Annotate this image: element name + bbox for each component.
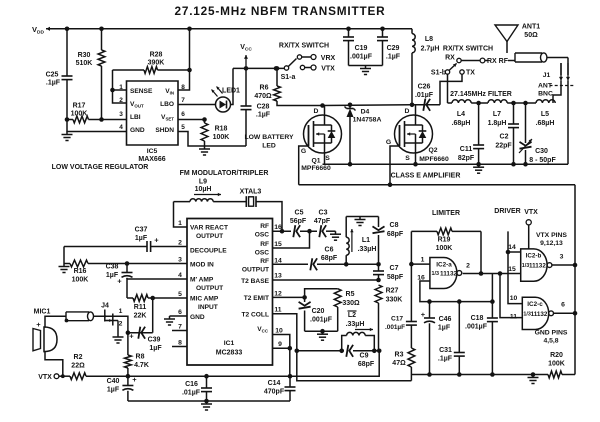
- junction pin14-L1: [344, 262, 349, 267]
- junction pin11 node: [295, 349, 300, 354]
- svg-text:50Ω: 50Ω: [524, 32, 538, 39]
- junction pin13-C7: [376, 278, 381, 283]
- svg-text:LBI: LBI: [130, 114, 141, 121]
- wire IC2b output: [552, 264, 575, 266]
- svg-text:Q2: Q2: [428, 147, 437, 154]
- node VTX driver terminal: [524, 209, 538, 249]
- capacitor C20: [299, 297, 333, 331]
- junction R11-C39: [150, 296, 155, 301]
- wire C25 to pin4 gnd: [67, 120, 127, 132]
- svg-text:TX: TX: [466, 70, 475, 77]
- svg-text:R16: R16: [74, 268, 87, 275]
- wire pin15 jog: [273, 231, 310, 248]
- resistor R18: [201, 120, 229, 147]
- IC5 pin numbers left: [119, 84, 123, 131]
- svg-text:.1µF: .1µF: [46, 80, 61, 87]
- svg-text:S1-a: S1-a: [281, 74, 296, 81]
- svg-text:G: G: [386, 139, 391, 146]
- wire pin8 stub: [172, 346, 187, 348]
- wire XTAL3 to pin16: [256, 202, 282, 232]
- wire J1 right down: [567, 81, 569, 165]
- label fm modulator: [180, 170, 269, 177]
- wire C39 node down: [127, 333, 129, 355]
- nand gate IC2-a: [417, 257, 461, 289]
- wire LED to Vcc wire: [231, 68, 234, 104]
- junction VDD-C25: [65, 27, 70, 32]
- svg-text:1µF: 1µF: [438, 325, 451, 332]
- wire Q2 gate down: [390, 146, 400, 185]
- svg-text:.1µF: .1µF: [386, 54, 401, 61]
- svg-text:C14: C14: [268, 380, 281, 387]
- svg-text:510K: 510K: [76, 60, 93, 67]
- svg-text:2: 2: [119, 321, 123, 328]
- junction L2 left: [339, 349, 344, 354]
- svg-text:RX RF: RX RF: [487, 58, 509, 65]
- svg-text:3: 3: [560, 254, 564, 261]
- svg-text:M′ AMP: M′ AMP: [190, 277, 214, 284]
- capacitor C6: [310, 247, 338, 271]
- svg-text:22K: 22K: [134, 313, 147, 320]
- wire pin7 stub: [172, 330, 187, 332]
- wire VTX rail to R27 node: [290, 351, 379, 376]
- junction rail-C2: [511, 162, 516, 167]
- svg-text:IC5: IC5: [147, 148, 158, 155]
- svg-text:6: 6: [181, 111, 185, 118]
- svg-text:RF: RF: [260, 241, 269, 248]
- svg-text:C7: C7: [390, 265, 399, 272]
- mic cable: [65, 312, 94, 323]
- svg-text:BNC: BNC: [538, 91, 553, 98]
- svg-text:100K: 100K: [436, 245, 453, 252]
- wire C28 bottom to ground node: [205, 145, 247, 147]
- svg-text:4: 4: [178, 272, 182, 279]
- svg-text:11: 11: [274, 307, 281, 314]
- svg-text:R2: R2: [74, 354, 83, 361]
- junction filter-C11: [476, 101, 481, 106]
- svg-text:R27: R27: [386, 288, 399, 295]
- svg-text:L5: L5: [541, 111, 549, 118]
- ground on L1 top: [355, 217, 366, 226]
- wire pin14 riser: [508, 231, 522, 303]
- svg-text:15: 15: [274, 241, 282, 248]
- junction C31 top: [457, 299, 462, 304]
- svg-text:1: 1: [119, 308, 123, 315]
- junction rail-C11: [476, 162, 481, 167]
- svg-text:8 - 50pF: 8 - 50pF: [529, 157, 556, 164]
- svg-text:C5: C5: [295, 210, 304, 217]
- svg-text:INPUT: INPUT: [198, 304, 218, 311]
- capacitor C3: [314, 210, 331, 238]
- capacitor C5: [290, 210, 307, 238]
- svg-text:100K: 100K: [548, 361, 565, 368]
- svg-text:390K: 390K: [148, 60, 165, 67]
- junction C5-C3: [307, 229, 312, 234]
- inductor L4: [452, 100, 472, 127]
- transistor Q1: [301, 106, 342, 173]
- junction C39 left node: [126, 330, 131, 335]
- junction Q2 gate: [388, 182, 393, 187]
- wire pin13: [273, 279, 379, 281]
- junction pin12-C20: [302, 295, 307, 300]
- svg-text:1: 1: [119, 84, 123, 91]
- junction VSET-R18: [202, 117, 207, 122]
- svg-text:DRIVER: DRIVER: [494, 208, 520, 215]
- switch S1-a: [274, 55, 336, 82]
- svg-text:MC2833: MC2833: [216, 350, 243, 357]
- svg-text:1/3: 1/3: [432, 271, 440, 277]
- junction C46 top: [427, 299, 432, 304]
- svg-text:11132: 11132: [529, 263, 546, 270]
- node VDD label: [32, 25, 44, 36]
- junction out-R19: [479, 271, 484, 276]
- svg-text:C20: C20: [312, 308, 325, 315]
- svg-text:1µF: 1µF: [149, 345, 162, 352]
- svg-text:G: G: [301, 148, 306, 155]
- wire J4 pin1 to C39 node: [106, 316, 128, 332]
- svg-text:LED1: LED1: [222, 88, 240, 95]
- svg-text:.001µF: .001µF: [310, 317, 333, 324]
- svg-text:R28: R28: [150, 52, 163, 59]
- ground under C19/C29: [360, 66, 371, 75]
- label limiter: [432, 210, 460, 217]
- node VTX terminal: [38, 374, 59, 381]
- coax to antenna: [485, 53, 547, 62]
- svg-text:C28: C28: [257, 104, 270, 111]
- svg-text:C17: C17: [391, 316, 403, 323]
- svg-text:MIC AMP: MIC AMP: [190, 296, 219, 303]
- svg-text:IC1: IC1: [224, 340, 235, 347]
- wire driver output riser: [574, 185, 576, 375]
- svg-text:J1: J1: [543, 72, 551, 79]
- svg-text:L2: L2: [348, 312, 356, 319]
- zener D4: [345, 105, 382, 164]
- svg-text:100K: 100K: [71, 111, 88, 118]
- svg-text:68pF: 68pF: [387, 231, 404, 238]
- wire GND pin6: [170, 315, 188, 317]
- wire VDD to VIN pin8: [178, 29, 190, 90]
- svg-text:2.7µH: 2.7µH: [421, 46, 440, 53]
- svg-text:.33µH: .33µH: [358, 246, 377, 253]
- resistor R16: [64, 260, 187, 283]
- junction rail-Q2S: [413, 162, 418, 167]
- label RX/TX switch b: [443, 46, 493, 53]
- junction drain-D4: [348, 103, 353, 108]
- svg-text:1: 1: [421, 257, 425, 264]
- svg-text:9: 9: [278, 341, 282, 348]
- svg-text:11132: 11132: [440, 271, 458, 278]
- svg-text:R30: R30: [78, 52, 91, 59]
- junction filter-C2: [511, 101, 516, 106]
- svg-text:2: 2: [119, 97, 123, 104]
- junction rail-C46: [427, 372, 432, 377]
- svg-text:RX/TX SWITCH: RX/TX SWITCH: [443, 46, 493, 53]
- svg-text:RX/TX SWITCH: RX/TX SWITCH: [279, 43, 329, 50]
- svg-text:R8: R8: [136, 354, 145, 361]
- wire source rail: [323, 163, 569, 165]
- capacitor C39: [128, 327, 162, 352]
- svg-text:L8: L8: [425, 36, 433, 43]
- svg-text:GND PINS: GND PINS: [535, 330, 568, 337]
- label VTX pins: [536, 232, 567, 247]
- svg-text:C40: C40: [107, 378, 120, 385]
- svg-text:SENSE: SENSE: [130, 88, 153, 95]
- wire bottom right rail: [411, 374, 575, 376]
- svg-text:1N4758A: 1N4758A: [353, 117, 382, 124]
- svg-text:C9: C9: [360, 353, 369, 360]
- svg-text:IC2-b: IC2-b: [526, 253, 542, 260]
- wire Q1 source: [324, 153, 326, 164]
- svg-text:.1µF: .1µF: [438, 356, 453, 363]
- resistor R2: [70, 354, 86, 380]
- svg-text:L9: L9: [199, 179, 207, 186]
- variable capacitor C30: [519, 103, 556, 164]
- svg-text:IC2-c: IC2-c: [527, 301, 543, 308]
- wire pin14: [273, 263, 379, 265]
- svg-text:.01µF: .01µF: [182, 390, 201, 397]
- svg-text:LOW VOLTAGE REGULATOR: LOW VOLTAGE REGULATOR: [52, 164, 149, 171]
- wire R11 node down: [152, 298, 154, 333]
- op-amp U-IC1 MC2833 box: [187, 219, 273, 366]
- svg-text:VTX: VTX: [38, 374, 52, 381]
- svg-text:3: 3: [178, 257, 182, 264]
- svg-text:R3: R3: [395, 352, 404, 359]
- wire output down to C18: [491, 274, 493, 319]
- inductor L1: [346, 217, 378, 265]
- svg-text:+: +: [132, 375, 137, 384]
- wire filter top rail: [448, 102, 537, 104]
- wire S1b pole to filter: [447, 74, 449, 103]
- svg-text:C31: C31: [439, 347, 452, 354]
- svg-text:58pF: 58pF: [387, 274, 404, 281]
- ground bottom rail: [201, 401, 212, 410]
- junction IC2c out: [573, 311, 578, 316]
- label L2: [346, 311, 373, 331]
- ground bottom right: [528, 375, 539, 384]
- junction VTX-mic: [61, 374, 65, 378]
- label low battery led: [244, 134, 294, 150]
- svg-text:R5: R5: [346, 291, 355, 298]
- capacitor C11: [458, 103, 484, 164]
- svg-text:T2 COLL: T2 COLL: [242, 312, 269, 319]
- svg-text:4.7K: 4.7K: [134, 362, 149, 369]
- capacitor C38: [106, 264, 133, 286]
- resistor R3: [392, 348, 415, 381]
- svg-text:SHDN: SHDN: [155, 127, 174, 134]
- svg-text:330Ω: 330Ω: [342, 300, 360, 307]
- switch S1-b: [431, 55, 475, 77]
- capacitor C25: [46, 29, 73, 120]
- wire J4 pin2 to ground: [117, 321, 119, 335]
- nand gate IC2-b: [508, 244, 563, 281]
- crystal XTAL3: [240, 189, 262, 208]
- svg-text:5: 5: [178, 291, 182, 298]
- svg-text:RF: RF: [260, 258, 269, 265]
- svg-text:7: 7: [181, 97, 185, 104]
- resistor R30: [76, 29, 105, 120]
- nand gate IC2-c: [510, 295, 565, 330]
- svg-text:C8: C8: [390, 222, 399, 229]
- svg-text:470Ω: 470Ω: [254, 93, 272, 100]
- svg-text:5: 5: [181, 124, 185, 131]
- ground under C20: [317, 331, 328, 340]
- svg-text:ANT1: ANT1: [522, 24, 540, 31]
- wire C26 to TX throw: [440, 74, 462, 105]
- svg-text:C26: C26: [418, 84, 431, 91]
- ground filter: [473, 164, 484, 173]
- wire R28 to pins 1-2: [113, 70, 127, 103]
- wire C20/R5 bottom: [305, 330, 338, 332]
- resistor R20: [548, 352, 565, 378]
- inductor L9: [174, 179, 247, 202]
- svg-text:14: 14: [274, 257, 282, 264]
- svg-text:330K: 330K: [386, 297, 403, 304]
- junction VTX-R8: [126, 374, 131, 379]
- svg-text:OUTPUT: OUTPUT: [242, 267, 269, 274]
- svg-text:J4: J4: [101, 303, 109, 310]
- ground at R16: [59, 264, 70, 273]
- capacitor C2: [495, 103, 519, 164]
- svg-text:ANT: ANT: [538, 83, 553, 90]
- resistor R11: [127, 295, 187, 320]
- wire Q1 gate down: [299, 146, 309, 185]
- wire pin4: [127, 279, 187, 298]
- svg-text:.68µH: .68µH: [452, 120, 471, 127]
- svg-text:C46: C46: [439, 316, 452, 323]
- svg-text:3: 3: [119, 111, 123, 118]
- junction pin9-pin10: [288, 346, 293, 351]
- capacitor C31: [438, 302, 465, 375]
- wire VDD rail: [46, 27, 412, 31]
- svg-text:+: +: [154, 236, 159, 245]
- svg-text:MIC1: MIC1: [34, 309, 51, 316]
- IC5 pin numbers right: [181, 84, 185, 131]
- label gnd pins: [535, 330, 568, 345]
- wire L9 to pin1: [174, 202, 188, 227]
- svg-text:+: +: [421, 310, 426, 319]
- junction VTX-C16: [204, 374, 209, 379]
- svg-text:OSC: OSC: [255, 250, 270, 257]
- microphone MIC1: [33, 309, 66, 376]
- wire SHDN pin5 to ground: [178, 132, 205, 147]
- svg-text:OUTPUT: OUTPUT: [196, 285, 223, 292]
- svg-text:C37: C37: [135, 227, 148, 234]
- svg-text:C3: C3: [319, 210, 328, 217]
- svg-text:CLASS E AMPLIFIER: CLASS E AMPLIFIER: [391, 173, 461, 180]
- label class e amplifier: [391, 173, 461, 180]
- svg-text:82pF: 82pF: [458, 155, 475, 162]
- svg-text:22Ω: 22Ω: [71, 363, 85, 370]
- svg-text:R20: R20: [550, 352, 563, 359]
- svg-text:.68µH: .68µH: [536, 120, 555, 127]
- svg-text:D: D: [405, 108, 410, 115]
- junction drain-Q2: [410, 103, 415, 108]
- resistor R17: [67, 103, 127, 123]
- svg-text:100K: 100K: [213, 134, 230, 141]
- junction R30-R17: [99, 117, 104, 122]
- svg-text:MOD IN: MOD IN: [190, 262, 214, 269]
- svg-text:OSC: OSC: [255, 232, 270, 239]
- svg-text:LIMITER: LIMITER: [432, 210, 460, 217]
- svg-text:MPF6660: MPF6660: [301, 165, 331, 172]
- svg-text:T2 EMIT: T2 EMIT: [244, 295, 269, 302]
- svg-text:C30: C30: [535, 148, 548, 155]
- svg-text:VRX: VRX: [321, 55, 336, 62]
- svg-text:100K: 100K: [72, 277, 89, 284]
- junction C25-R17: [65, 117, 70, 122]
- ground at pin6: [164, 316, 175, 325]
- svg-text:LBO: LBO: [160, 101, 174, 108]
- junction rail-C30: [523, 162, 528, 167]
- svg-text:R19: R19: [438, 237, 451, 244]
- wire LBO pin7 to LED: [178, 104, 216, 106]
- ground under R18: [199, 146, 210, 155]
- junction VTX-C14: [288, 374, 293, 379]
- capacitor C14: [264, 376, 296, 401]
- svg-text:.001µF: .001µF: [465, 324, 488, 331]
- IC1 pin numbers left: [178, 220, 182, 347]
- connector J1: [538, 58, 575, 98]
- wire bottom rail: [128, 400, 290, 402]
- junction rail-C31: [457, 372, 462, 377]
- svg-text:.1µF: .1µF: [256, 112, 271, 119]
- ground at J4: [113, 334, 124, 343]
- wire J1 left to filter out: [553, 81, 561, 103]
- wire pin16: [273, 230, 336, 232]
- label low voltage regulator: [52, 164, 149, 171]
- wire C19-C29 bottom: [349, 65, 383, 67]
- capacitor C26: [412, 84, 440, 111]
- IC1 pin numbers right: [274, 224, 283, 348]
- svg-text:VAR REACT: VAR REACT: [190, 225, 228, 232]
- capacitor C9: [346, 345, 375, 368]
- svg-text:1µF: 1µF: [135, 235, 148, 242]
- svg-text:6: 6: [561, 302, 565, 309]
- ground after C3: [330, 231, 341, 240]
- svg-text:C38: C38: [106, 264, 119, 271]
- svg-text:VTX: VTX: [524, 209, 538, 216]
- wire pin10: [273, 335, 290, 377]
- svg-text:56pF: 56pF: [290, 218, 307, 225]
- resistor R6: [254, 68, 322, 105]
- svg-text:RX: RX: [445, 55, 455, 62]
- svg-text:.001µF: .001µF: [385, 324, 405, 331]
- capacitor C29: [377, 29, 401, 66]
- svg-text:C25: C25: [46, 72, 59, 79]
- capacitor C19: [343, 29, 373, 66]
- svg-text:13: 13: [274, 273, 282, 280]
- svg-text:27.125-MHz NBFM TRANSMITTER: 27.125-MHz NBFM TRANSMITTER: [174, 4, 385, 18]
- svg-text:4: 4: [119, 124, 123, 131]
- junction IC2b out: [573, 263, 578, 268]
- wire VSET pin6: [178, 119, 205, 121]
- svg-text:GND: GND: [130, 127, 145, 134]
- label filter: [450, 91, 512, 98]
- capacitor C37: [64, 227, 187, 253]
- wire IC2c pin11 riser: [500, 274, 522, 318]
- op-amp U-IC5 MAX666 box: [127, 81, 179, 163]
- svg-text:C18: C18: [471, 315, 484, 322]
- junction MODIN-C38: [125, 261, 130, 266]
- svg-text:27.145MHz FILTER: 27.145MHz FILTER: [450, 91, 512, 98]
- junction Vcc-R6: [275, 66, 280, 71]
- svg-text:+: +: [36, 320, 41, 329]
- wire drain rail: [323, 104, 413, 107]
- capacitor C7: [373, 264, 404, 281]
- junction VDD-C19: [346, 27, 351, 32]
- wire pin9: [273, 347, 290, 349]
- svg-text:OUTPUT: OUTPUT: [196, 233, 223, 240]
- svg-text:10: 10: [510, 295, 518, 302]
